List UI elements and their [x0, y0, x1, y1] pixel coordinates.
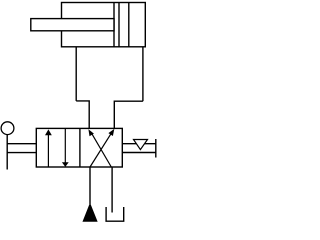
wire valve bottom left drop [89, 167, 91, 204]
cylinder body [62, 3, 146, 47]
valve arrow up (left square) [45, 129, 52, 166]
gauge circle [1, 122, 14, 135]
valve crossed arrow B (right square) [88, 129, 111, 167]
valve arrow down (left square) [62, 129, 69, 167]
wire gauge drop line [6, 134, 8, 169]
wire cylinder right port down [142, 48, 144, 102]
wire valve right stub upper [122, 143, 156, 145]
exhaust triangle [134, 140, 148, 150]
piston (double line) [114, 3, 119, 47]
wire valve right stub lower [122, 152, 156, 154]
pressure source triangle [83, 204, 97, 221]
valve 4/2 body [36, 128, 122, 167]
wire valve left stub upper [7, 143, 36, 145]
wire cylinder left port down [75, 48, 77, 101]
plug bar [155, 139, 157, 158]
wire valve left stub lower [7, 152, 36, 154]
cylinder internal wall [128, 3, 130, 47]
wire jog left [76, 101, 89, 128]
valve crossed arrow A (right square) [90, 129, 114, 167]
wire jog right [114, 101, 143, 128]
tank [106, 207, 124, 221]
piston rod [31, 19, 114, 31]
wire valve bottom right drop [111, 167, 113, 213]
